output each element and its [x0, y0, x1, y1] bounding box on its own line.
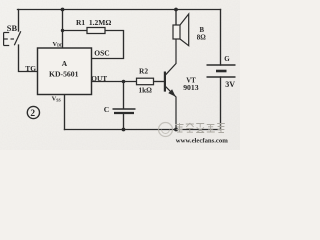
node VDD rail / IC tap — [61, 8, 65, 12]
emitter arrowhead — [168, 89, 175, 97]
resistor R2 body — [137, 78, 154, 85]
svg-text:C: C — [104, 105, 109, 114]
pushbutton SB actuator bracket — [4, 33, 14, 46]
svg-text:VDD: VDD — [53, 41, 64, 48]
capacitor C plates — [113, 108, 136, 110]
svg-text:SB: SB — [7, 24, 18, 33]
wire speaker top feed — [175, 10, 177, 26]
svg-text:G: G — [224, 55, 230, 63]
emitter — [166, 87, 176, 130]
svg-text:www.elecfans.com: www.elecfans.com — [176, 137, 228, 144]
node capacitor / ground rail — [122, 128, 126, 132]
watermark CJK glyph blocks — [176, 123, 225, 133]
svg-text:B: B — [200, 27, 205, 34]
wire VSS drop — [64, 95, 66, 130]
wire capacitor to ground rail — [123, 114, 125, 130]
svg-text:R2: R2 — [139, 66, 148, 75]
wire R2 to base — [154, 81, 165, 83]
wire battery bottom lead — [220, 77, 222, 130]
node OUT / capacitor tap — [122, 80, 126, 84]
transistor Q1 9013 — [165, 39, 176, 130]
wire switch bottom contact down to TG corner — [19, 45, 38, 72]
circled figure number 2 — [27, 106, 39, 118]
speaker B cone — [180, 14, 189, 46]
svg-text:2: 2 — [30, 109, 35, 119]
watermark logo circle — [159, 123, 173, 137]
pushbutton SB blade — [14, 31, 20, 45]
wire VDD drop to IC — [62, 10, 64, 49]
svg-text:VSS: VSS — [52, 96, 62, 103]
resistor R1 body — [87, 28, 105, 34]
wire bottom rail — [65, 129, 221, 131]
IC U1 KD-5601 box — [38, 48, 92, 95]
node emitter / ground rail — [174, 128, 178, 132]
svg-text:R1 1.2MΩ: R1 1.2MΩ — [76, 18, 111, 27]
wire top rail VDD — [18, 9, 221, 11]
wire R1 left lead — [63, 30, 88, 32]
node R1 tap on VDD drop — [61, 29, 64, 32]
svg-text:A: A — [62, 59, 68, 68]
wire capacitor branch from OUT node — [123, 82, 125, 109]
svg-text:KD-5601: KD-5601 — [49, 70, 79, 79]
wire switch top contact — [18, 10, 20, 32]
base bar — [164, 72, 166, 92]
svg-text:9013: 9013 — [183, 83, 199, 92]
speaker B driver — [173, 25, 180, 39]
svg-text:OSC: OSC — [94, 49, 109, 58]
svg-text:8Ω: 8Ω — [197, 35, 206, 42]
battery G plates — [207, 64, 236, 66]
wire R1 right lead to OSC pin — [92, 31, 124, 59]
svg-text:OUT: OUT — [91, 74, 107, 83]
node rail / speaker tap — [174, 8, 178, 12]
svg-text:TG: TG — [25, 64, 36, 73]
svg-text:1kΩ: 1kΩ — [139, 87, 153, 95]
wire OUT pin to R2 — [92, 81, 137, 83]
wire battery top lead — [220, 10, 222, 66]
collector — [166, 39, 176, 75]
svg-text:3V: 3V — [225, 80, 235, 89]
